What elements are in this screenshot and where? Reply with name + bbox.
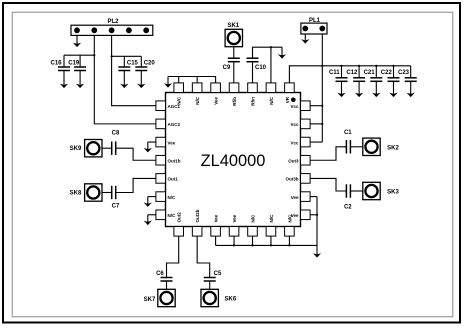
svg-text:VR: VR xyxy=(285,96,290,103)
svg-text:C8: C8 xyxy=(112,131,120,137)
ground at PL2 pin 1 xyxy=(76,35,78,45)
ground below C11 xyxy=(341,81,343,95)
ground at top bracket xyxy=(167,77,169,86)
pin box right Vcc xyxy=(301,101,311,111)
svg-text:Out3: Out3 xyxy=(288,159,299,164)
ground below C22 xyxy=(393,81,395,95)
ground below C15 xyxy=(123,71,125,87)
wire C9 to pin Rfib xyxy=(233,62,235,83)
pin box right Out3 xyxy=(301,155,311,165)
pin box left Out1b xyxy=(156,155,166,165)
pin box top Rfib xyxy=(229,83,239,93)
svg-text:N/C: N/C xyxy=(168,195,177,200)
wire Out3 to C1 xyxy=(310,147,346,160)
junction PL2-pin2/C16 rail xyxy=(93,54,95,56)
junction bottom rail 6 xyxy=(270,244,272,246)
svg-text:C11: C11 xyxy=(329,70,340,76)
wire Vcc pin3 stub xyxy=(310,141,322,143)
svg-text:C2: C2 xyxy=(344,205,352,211)
pin box bottom Out2b xyxy=(192,227,202,237)
wire bottom ground rail xyxy=(216,244,317,246)
svg-text:C21: C21 xyxy=(364,70,376,76)
junction bottom rail 7 xyxy=(288,244,290,246)
svg-text:C6: C6 xyxy=(156,271,164,277)
pin box right Vcc xyxy=(301,137,311,147)
pin box top VR xyxy=(285,83,295,93)
wire C2 to SK3 xyxy=(350,190,363,192)
wire C16/C19 rail xyxy=(64,54,94,56)
pin box top N/C xyxy=(266,83,276,93)
pin box left N/C xyxy=(156,192,166,202)
svg-text:Vee: Vee xyxy=(214,97,219,105)
wire C5 to SK6 xyxy=(209,281,211,290)
svg-text:SK3: SK3 xyxy=(387,190,399,196)
ground at left Vee pin xyxy=(148,141,156,143)
ground at left N/C pin 7 xyxy=(148,214,156,216)
wire Vcc pin2 stub xyxy=(310,123,322,125)
svg-text:C23: C23 xyxy=(398,70,410,76)
svg-text:PL2: PL2 xyxy=(107,19,119,25)
junction PL2-pin3/C15 rail xyxy=(111,55,113,57)
pin box right Vee xyxy=(301,192,311,202)
svg-text:C1: C1 xyxy=(344,130,352,136)
junction right Vee bus xyxy=(316,214,318,216)
svg-text:Vee: Vee xyxy=(168,140,176,145)
pin box right Vee xyxy=(301,210,311,220)
svg-text:Out1b: Out1b xyxy=(168,159,181,164)
wire bottom pin 4 stub xyxy=(233,236,235,245)
svg-text:SK8: SK8 xyxy=(70,191,82,197)
svg-text:C5: C5 xyxy=(214,271,222,277)
svg-text:Vee: Vee xyxy=(214,214,219,222)
wire PL2 pin2 to AGC2 xyxy=(94,35,156,123)
pin box top N/C xyxy=(174,83,184,93)
svg-text:C15: C15 xyxy=(127,61,139,67)
svg-text:Rfin: Rfin xyxy=(251,97,256,106)
ground below C20 xyxy=(140,71,142,87)
svg-text:N/C: N/C xyxy=(269,214,274,223)
wire SK9 to C8 xyxy=(102,147,112,149)
svg-text:C12: C12 xyxy=(346,70,358,76)
connector SK7 xyxy=(158,289,175,306)
svg-text:SK7: SK7 xyxy=(144,297,156,303)
wire bottom pin 3 stub xyxy=(215,236,217,245)
svg-text:N/C: N/C xyxy=(177,96,182,105)
svg-text:C16: C16 xyxy=(50,61,62,67)
svg-text:Rfib: Rfib xyxy=(232,97,237,106)
ground below C12 xyxy=(358,81,360,95)
pin 1 marker dot xyxy=(291,98,296,103)
ground at C10 rail xyxy=(281,47,283,56)
junction rail/C12 xyxy=(358,65,360,67)
junction bottom rail 4 xyxy=(233,244,235,246)
wire bottom pin 6 stub xyxy=(270,236,272,245)
pin box left Out1 xyxy=(156,174,166,184)
junction bottom rail 5 xyxy=(251,244,253,246)
wire rail to pin N/C(6) xyxy=(270,47,272,83)
wire Vcc pin1 stub xyxy=(310,105,322,107)
connector SK3 xyxy=(363,182,380,199)
junction Vcc2/bus xyxy=(321,123,323,125)
wire SK8 to C7 xyxy=(102,192,112,194)
pin box right Out3b xyxy=(301,174,311,184)
wire bottom pin 5 stub xyxy=(252,236,254,245)
pin box left N/C xyxy=(156,210,166,220)
pin box left Vee xyxy=(156,137,166,147)
svg-text:Vee: Vee xyxy=(291,195,299,200)
svg-text:SK6: SK6 xyxy=(225,297,237,303)
svg-text:Vcc: Vcc xyxy=(290,104,299,109)
pin box top N/C xyxy=(192,83,202,93)
svg-text:Out2b: Out2b xyxy=(195,209,200,222)
svg-text:N/C: N/C xyxy=(168,213,177,218)
wire top N/C,N/C,Vee bracket xyxy=(168,77,216,83)
wire C15/C20 rail xyxy=(112,55,142,57)
ground below C19 xyxy=(79,71,81,87)
wire PL1 pin2 Vcc bus xyxy=(321,34,323,142)
svg-text:N/C: N/C xyxy=(251,214,256,223)
pin box top Rfin xyxy=(248,83,258,93)
wire Out2b to C5 xyxy=(197,236,210,277)
pin box bottom Vee xyxy=(211,227,221,237)
svg-text:C19: C19 xyxy=(68,61,80,67)
wire PL2 pin3 to AGC1 xyxy=(112,35,156,105)
ground at PL1 pin 1 xyxy=(304,34,306,42)
svg-text:SK9: SK9 xyxy=(70,146,82,152)
svg-text:C22: C22 xyxy=(381,70,393,76)
connector SK6 xyxy=(201,289,218,306)
junction rail/C11 xyxy=(340,65,342,67)
wire C10 to pin Rfin xyxy=(252,62,254,83)
svg-text:ZL40000: ZL40000 xyxy=(201,152,266,170)
wire C8 to Out1b xyxy=(116,148,156,160)
svg-text:N/C: N/C xyxy=(195,96,200,105)
svg-text:Out1: Out1 xyxy=(168,177,179,182)
wire right Vee pins to ground bus xyxy=(310,196,317,198)
ground at left N/C pin 6 xyxy=(148,196,156,198)
svg-text:SK2: SK2 xyxy=(387,145,399,151)
wire C7 to Out1 xyxy=(116,178,156,192)
junction rail/C22 xyxy=(392,65,394,67)
junction rail/pin6 xyxy=(270,46,272,48)
pin box left AGC1 xyxy=(156,101,166,111)
wire C10 top rail xyxy=(253,47,283,58)
wire C6 to SK7 xyxy=(166,281,168,290)
svg-text:Vcc: Vcc xyxy=(290,122,299,127)
svg-text:Vee: Vee xyxy=(232,214,237,222)
svg-text:AGC2: AGC2 xyxy=(168,122,181,127)
pin box top Vee xyxy=(211,83,221,93)
pin box right Vcc xyxy=(301,119,311,129)
svg-text:C7: C7 xyxy=(112,204,120,210)
ground below C16 xyxy=(63,71,65,87)
svg-text:C20: C20 xyxy=(144,61,156,67)
wire C1 to SK2 xyxy=(350,146,363,148)
op-amp U1 ZL40000 body xyxy=(166,93,301,227)
svg-text:C9: C9 xyxy=(223,65,231,71)
svg-text:Vcc: Vcc xyxy=(290,140,299,145)
ground below C21 xyxy=(375,81,377,95)
svg-text:N/C: N/C xyxy=(287,214,292,223)
pin box bottom N/C xyxy=(285,227,295,237)
wire VR pin to decoupling rail xyxy=(289,66,410,83)
pin box bottom N/C xyxy=(248,227,258,237)
svg-text:C10: C10 xyxy=(255,65,267,71)
ground below C23 xyxy=(410,81,412,95)
junction rail/C21 xyxy=(375,65,377,67)
pin box bottom Out2 xyxy=(174,227,184,237)
pin box bottom N/C xyxy=(266,227,276,237)
wire bottom pin 7 stub xyxy=(288,236,290,245)
junction rail/Vcc bus xyxy=(321,65,323,67)
wire Out2 to C6 xyxy=(167,236,179,277)
pin box left AGC2 xyxy=(156,119,166,129)
wire Out3b to C2 xyxy=(310,178,346,191)
pin box bottom Vee xyxy=(229,227,239,237)
wire SK1 to C9 xyxy=(233,47,235,59)
junction Vcc1/bus xyxy=(321,105,323,107)
ground at bottom rail xyxy=(316,245,318,255)
svg-text:N/C: N/C xyxy=(269,96,274,105)
connector SK2 xyxy=(363,138,380,155)
svg-text:Out2: Out2 xyxy=(177,212,182,223)
svg-text:Out3b: Out3b xyxy=(286,177,299,182)
svg-text:SK1: SK1 xyxy=(227,23,239,29)
